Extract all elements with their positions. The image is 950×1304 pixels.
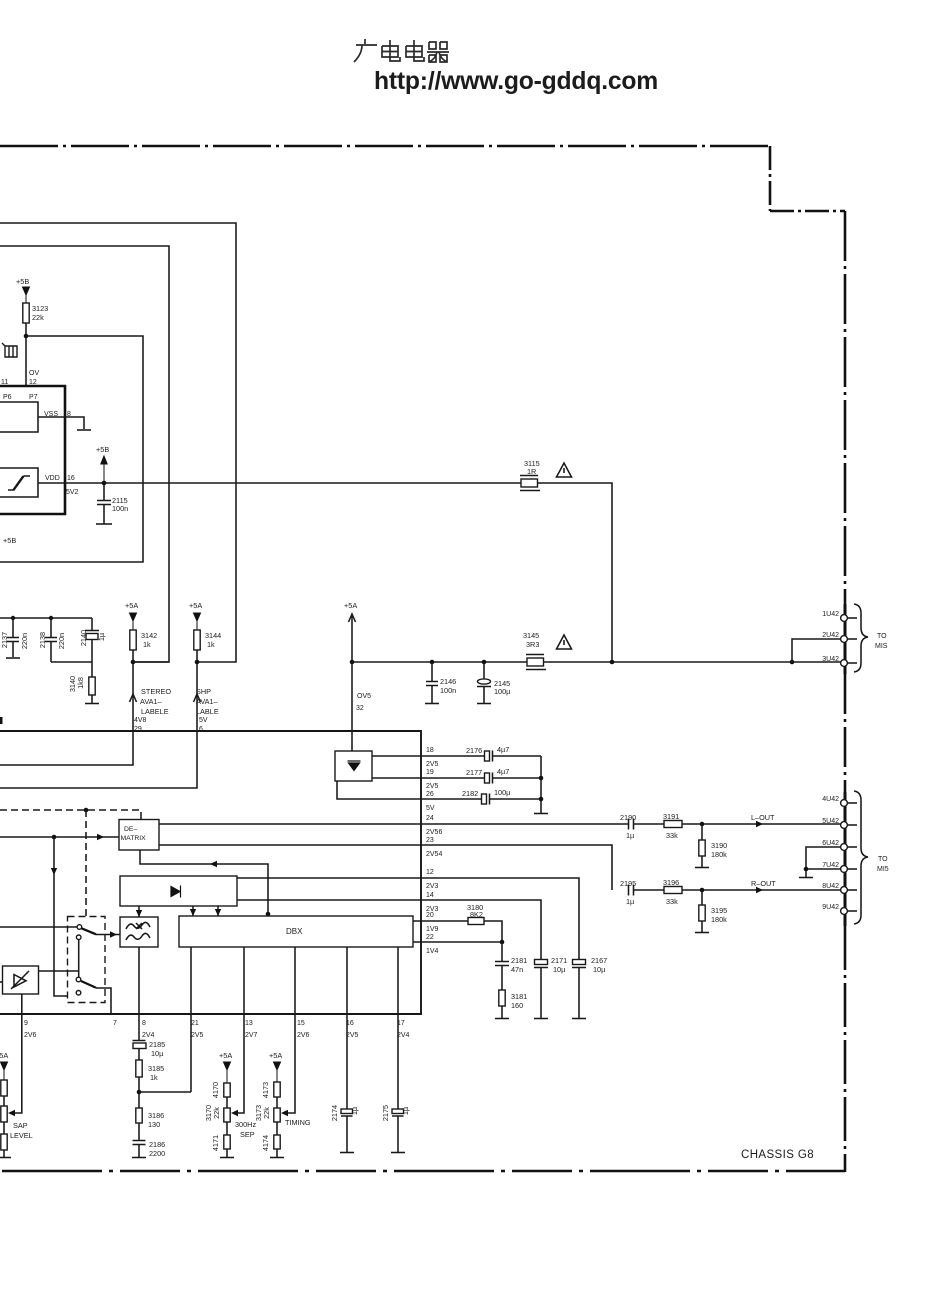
node junction dot on VDD rail [102, 481, 107, 486]
svg-text:1k: 1k [207, 640, 215, 649]
wire supply rail to 3145 [352, 661, 527, 663]
svg-text:9U42: 9U42 [822, 904, 839, 911]
svg-text:2V6: 2V6 [24, 1032, 37, 1039]
svg-text:1µ: 1µ [626, 831, 635, 840]
wire dbx to pin 21 [190, 947, 192, 1014]
node junction dot [430, 660, 435, 665]
svg-text:15: 15 [297, 1020, 305, 1027]
svg-text:22k: 22k [212, 1107, 221, 1119]
svg-text:14: 14 [426, 892, 434, 899]
resistor 4173 [274, 1082, 280, 1097]
svg-text:MI5: MI5 [877, 866, 889, 873]
svg-text:DE–: DE– [124, 826, 137, 833]
svg-text:LABELE: LABELE [141, 707, 169, 716]
supply +5B arrow [23, 287, 30, 303]
capacitor 2176 [485, 751, 490, 761]
wire pin 8 from wave block [138, 947, 140, 1014]
svg-text:2V4: 2V4 [397, 1032, 410, 1039]
svg-text:LEVEL: LEVEL [10, 1131, 33, 1140]
wire arrow into wave block [138, 906, 140, 917]
wire ground bus of caps [540, 756, 542, 813]
op-amp U1 microcomputer box [0, 386, 65, 514]
wire mute out [39, 970, 79, 972]
wire 3144 to pin 6 [196, 650, 198, 731]
svg-text:20: 20 [426, 912, 434, 919]
capacitor 2145 electrolytic [483, 662, 485, 679]
svg-text:TO: TO [878, 856, 888, 863]
svg-text:180k: 180k [711, 850, 727, 859]
brace to MI5 [854, 791, 868, 924]
capacitor 2181 [495, 942, 509, 990]
svg-text:4170: 4170 [211, 1082, 220, 1098]
wire VDD long rail to resistor 3115 [38, 482, 521, 484]
L-OUT arrow [756, 821, 763, 827]
svg-text:220n: 220n [20, 633, 29, 649]
svg-text:2167: 2167 [591, 956, 607, 965]
svg-text:26: 26 [426, 791, 434, 798]
svg-text:8U42: 8U42 [822, 883, 839, 890]
dbx block [179, 916, 413, 947]
svg-text:+5B: +5B [96, 445, 109, 454]
chain border top [0, 145, 770, 148]
svg-text:2177: 2177 [466, 768, 482, 777]
ground [477, 703, 491, 705]
chain border top-right step [770, 146, 845, 211]
svg-text:9: 9 [24, 1020, 28, 1027]
arrow up shp available [194, 694, 201, 702]
wire 6U42 7U42 tie to ground [806, 847, 841, 877]
svg-text:2V7: 2V7 [245, 1032, 258, 1039]
svg-text:2V54: 2V54 [426, 851, 442, 858]
svg-text:1V9: 1V9 [426, 926, 439, 933]
svg-text:100µ: 100µ [494, 788, 511, 797]
svg-text:+5B: +5B [16, 277, 29, 286]
svg-text:+5A: +5A [269, 1051, 282, 1060]
svg-text:8: 8 [142, 1020, 146, 1027]
switch dashed box [68, 917, 106, 1003]
wire de-matrix lower port from dbx [140, 850, 268, 916]
wire resistor 3123 to pin 12 [25, 323, 27, 386]
svg-text:8K2: 8K2 [470, 910, 483, 919]
pin 12 wire to 2167 [237, 878, 579, 959]
arrow up stereo available [130, 694, 137, 702]
node junction dot [137, 1090, 142, 1095]
brace to MIS [854, 604, 868, 672]
switch S1 [77, 925, 82, 930]
capacitor 2115 [97, 483, 111, 524]
schmitt trigger block [0, 468, 38, 497]
svg-text:4µ7: 4µ7 [497, 767, 509, 776]
svg-text:+5A: +5A [125, 601, 138, 610]
wire 3142 to pin 29 [132, 650, 134, 731]
svg-text:33k: 33k [666, 897, 678, 906]
svg-text:4174: 4174 [261, 1135, 270, 1151]
capacitor 2137 [7, 618, 19, 657]
svg-text:OV: OV [29, 370, 39, 377]
wire pin 6 internal [0, 731, 197, 788]
svg-text:4µ7: 4µ7 [497, 745, 509, 754]
svg-text:1k8: 1k8 [76, 677, 85, 689]
switch S2 [76, 977, 81, 982]
capacitor 2146 [426, 662, 438, 703]
pin 22 wire [413, 941, 502, 943]
arrow up supply [101, 456, 107, 483]
svg-text:33k: 33k [666, 831, 678, 840]
matrix diode block [120, 876, 237, 906]
capacitor 2177 [485, 773, 490, 783]
svg-text:STEREO: STEREO [141, 687, 171, 696]
node junction dot [131, 660, 136, 665]
svg-text:MATRIX: MATRIX [121, 835, 147, 842]
arrow up [349, 614, 356, 622]
svg-text:+5A: +5A [344, 601, 357, 610]
svg-text:3U42: 3U42 [822, 656, 839, 663]
svg-text:AVA1–: AVA1– [196, 697, 219, 706]
resistor 3145 fusible [527, 658, 544, 666]
svg-text:5V: 5V [426, 805, 435, 812]
wire pin 32 into reference block [351, 662, 353, 751]
wire dbx to pin 17 [397, 947, 399, 1014]
svg-text:1µ: 1µ [97, 632, 106, 641]
svg-text:2146: 2146 [440, 677, 456, 686]
svg-text:4171: 4171 [211, 1135, 220, 1151]
ground [534, 1018, 548, 1020]
svg-text:2190: 2190 [620, 813, 636, 822]
resistor 3140 [91, 662, 93, 677]
node junction dot [49, 616, 53, 620]
svg-text:100n: 100n [112, 504, 128, 513]
svg-text:3191: 3191 [663, 812, 679, 821]
svg-text:180k: 180k [711, 915, 727, 924]
capacitor 2195 [629, 885, 634, 896]
wire from node A to off-page left [0, 336, 143, 562]
wire pin 19 [372, 777, 484, 779]
ground [572, 1018, 586, 1020]
ground [0, 1157, 11, 1159]
svg-text:18: 18 [426, 747, 434, 754]
capacitor 2190 [629, 819, 634, 830]
wire pin 18 [372, 755, 484, 757]
svg-text:2V5: 2V5 [426, 783, 439, 790]
svg-text:P6: P6 [3, 394, 12, 401]
svg-text:13: 13 [245, 1020, 253, 1027]
reference diode block [335, 751, 372, 781]
ground [534, 813, 548, 815]
svg-text:5V2: 5V2 [66, 489, 79, 496]
svg-text:SAP: SAP [13, 1121, 28, 1130]
wire capacitor row feed [0, 617, 92, 619]
capacitor 2182 [482, 794, 487, 804]
wire dbx to pin 16 [346, 947, 348, 1014]
wire pin 9 [21, 994, 23, 1014]
capacitor 2138 [45, 618, 57, 662]
ground [6, 657, 20, 659]
svg-text:3R3: 3R3 [526, 640, 539, 649]
svg-text:7U42: 7U42 [822, 862, 839, 869]
svg-text:6U42: 6U42 [822, 840, 839, 847]
svg-text:3196: 3196 [663, 878, 679, 887]
potentiometer 3173 [274, 1108, 280, 1122]
wire pin 13 to 300Hz pot [233, 1014, 244, 1113]
svg-text:2137: 2137 [0, 632, 9, 648]
dashed wire to switch [85, 810, 87, 957]
svg-text:19: 19 [426, 769, 434, 776]
resistor 4174 [274, 1135, 280, 1149]
svg-text:2171: 2171 [551, 956, 567, 965]
wire node to inner L-path [133, 661, 169, 663]
svg-text:100µ: 100µ [494, 687, 511, 696]
wire pin 26 from block bottom [337, 781, 481, 799]
svg-text:http://www.go-gddq.com: http://www.go-gddq.com [374, 68, 658, 95]
resistor 3191 [664, 821, 682, 828]
svg-text:2175: 2175 [381, 1105, 390, 1121]
svg-text:SHP: SHP [196, 687, 211, 696]
audio mute block [3, 966, 39, 994]
svg-text:2V5: 2V5 [191, 1032, 204, 1039]
capacitor 2167 polarized [573, 960, 586, 965]
svg-text:2V3: 2V3 [426, 883, 439, 890]
node junction dot [195, 660, 200, 665]
connector book icon [2, 343, 17, 357]
wire pin 29 internal [0, 731, 133, 765]
ground [425, 703, 439, 705]
svg-text:100n: 100n [440, 686, 456, 695]
ground [391, 1152, 405, 1154]
svg-text:3190: 3190 [711, 841, 727, 850]
chain border right [844, 211, 847, 604]
svg-text:2V56: 2V56 [426, 829, 442, 836]
wire de-matrix input [0, 836, 119, 838]
ground [695, 932, 709, 934]
wire down-mix control [54, 837, 76, 996]
wire 3115 to corner down [538, 483, 613, 662]
de-matrix block [119, 820, 159, 851]
ground [695, 867, 709, 869]
svg-text:L–OUT: L–OUT [751, 813, 775, 822]
svg-text:2186: 2186 [149, 1140, 165, 1149]
svg-text:32: 32 [356, 705, 364, 712]
chain border bottom [2, 1170, 845, 1173]
svg-text:10µ: 10µ [593, 965, 606, 974]
svg-text:SEP: SEP [240, 1130, 255, 1139]
wire pin 15 to timing pot [283, 1014, 295, 1113]
node junction dot [610, 660, 615, 665]
left margin cut label mark [0, 717, 3, 724]
svg-text:LABLE: LABLE [196, 707, 219, 716]
svg-text:+5B: +5B [3, 536, 16, 545]
resistor 3185 [136, 1060, 142, 1077]
svg-text:160: 160 [511, 1001, 523, 1010]
svg-text:1µ: 1µ [401, 1106, 410, 1115]
ground [270, 1157, 284, 1159]
ground [96, 523, 112, 525]
potentiometer 3170 [224, 1108, 230, 1122]
pin 20 wire with resistor 3180 [413, 920, 468, 922]
warning triangle [557, 635, 572, 649]
resistor 3142 [130, 630, 136, 650]
wire switch input [0, 926, 77, 928]
capacitor 2175 polarized [397, 1014, 399, 1109]
resistor 3115 fusible [521, 479, 538, 487]
svg-text:12: 12 [426, 869, 434, 876]
wire node to pin 21 [139, 1014, 191, 1092]
dashed control bus [0, 810, 141, 819]
svg-text:3185: 3185 [148, 1064, 164, 1073]
capacitor 2174 polarized [346, 1014, 348, 1109]
svg-text:1R: 1R [527, 467, 536, 476]
R-OUT arrow [756, 887, 763, 893]
svg-text:TIMING: TIMING [285, 1118, 311, 1127]
svg-text:2V5: 2V5 [426, 761, 439, 768]
capacitor 2140 polarized [85, 618, 99, 631]
svg-text:AVA1–: AVA1– [140, 697, 163, 706]
svg-text:22k: 22k [32, 313, 44, 322]
resistor 3123 [23, 303, 29, 323]
svg-text:2140: 2140 [79, 630, 88, 646]
potentiometer sap level [1, 1106, 7, 1122]
svg-text:3195: 3195 [711, 906, 727, 915]
svg-text:4U42: 4U42 [822, 796, 839, 803]
IC U42 main box [0, 731, 421, 1014]
wire pin 9 to pot [10, 1014, 22, 1113]
sub-block box port P6 [0, 402, 38, 432]
node junction dot [11, 616, 15, 620]
svg-text:1k: 1k [150, 1073, 158, 1082]
ground [495, 1018, 509, 1020]
svg-text:2V6: 2V6 [297, 1032, 310, 1039]
svg-text:MIS: MIS [875, 643, 888, 650]
pin 14 wire to 2171 [237, 900, 541, 959]
svg-text:1µ: 1µ [626, 897, 635, 906]
svg-text:3181: 3181 [511, 992, 527, 1001]
resistor 3190 [701, 824, 703, 840]
svg-text:2V4: 2V4 [142, 1032, 155, 1039]
resistor 3196 [664, 887, 682, 894]
svg-text:1V4: 1V4 [426, 948, 439, 955]
resistor sap top [1, 1080, 7, 1096]
svg-text:2195: 2195 [620, 879, 636, 888]
ground [132, 1157, 146, 1159]
ground [85, 703, 99, 705]
wire dbx to pin 13 [243, 947, 245, 1014]
svg-text:5V: 5V [199, 717, 208, 724]
warning triangle [557, 463, 572, 477]
wire branch to 2U42 [792, 639, 841, 662]
svg-text:16: 16 [67, 475, 75, 482]
svg-text:2185: 2185 [149, 1040, 165, 1049]
wire pin 8 to ground [38, 417, 84, 429]
svg-text:10µ: 10µ [151, 1049, 164, 1058]
node junction dot [790, 660, 795, 665]
ground [799, 877, 813, 879]
svg-text:VDD: VDD [45, 475, 60, 482]
node junction dot [700, 888, 705, 893]
svg-text:4173: 4173 [261, 1082, 270, 1098]
node junction dot [700, 822, 705, 827]
resistor sap bottom [1, 1134, 7, 1150]
svg-text:1k: 1k [143, 640, 151, 649]
resistor 4170 [224, 1083, 230, 1097]
svg-text:1µ: 1µ [350, 1106, 359, 1115]
svg-text:2176: 2176 [466, 746, 482, 755]
resistor 3195 [701, 890, 703, 905]
wire outer L-path from off-page to node under 3144 [0, 223, 236, 662]
svg-text:10µ: 10µ [553, 965, 566, 974]
wire 3145 to terminal 3U42 [544, 661, 842, 663]
resistor 3181 [499, 990, 505, 1006]
svg-text:22: 22 [426, 934, 434, 941]
wire dbx to pin 15 [294, 947, 296, 1014]
svg-text:2U42: 2U42 [822, 632, 839, 639]
svg-text:TO: TO [877, 633, 887, 640]
node junction dot [482, 660, 487, 665]
svg-text:DBX: DBX [286, 927, 303, 936]
svg-text:2181: 2181 [511, 956, 527, 965]
svg-text:+5A: +5A [189, 601, 202, 610]
ground [77, 429, 91, 431]
svg-text:R–OUT: R–OUT [751, 879, 776, 888]
svg-text:2182: 2182 [462, 789, 478, 798]
svg-text:3142: 3142 [141, 631, 157, 640]
svg-text:2200: 2200 [149, 1149, 165, 1158]
svg-text:CHASSIS G8: CHASSIS G8 [741, 1149, 814, 1161]
capacitor 2171 polarized [535, 960, 548, 965]
pin 23 line R-channel from de-matrix [159, 845, 612, 890]
node A junction dot [24, 334, 29, 339]
ground [340, 1152, 354, 1154]
svg-text:24: 24 [426, 815, 434, 822]
wave filter block [120, 917, 158, 947]
svg-text:2V5: 2V5 [346, 1032, 359, 1039]
svg-text:47n: 47n [511, 965, 523, 974]
ground [220, 1157, 234, 1159]
svg-text:3123: 3123 [32, 304, 48, 313]
svg-text:OV5: OV5 [357, 693, 371, 700]
svg-text:22k: 22k [262, 1107, 271, 1119]
svg-text:2138: 2138 [38, 632, 47, 648]
header logo text 广电电器 [354, 39, 449, 62]
svg-text:2174: 2174 [330, 1105, 339, 1121]
svg-text:3145: 3145 [523, 631, 539, 640]
pin 24 line L-channel from de-matrix [159, 823, 628, 825]
svg-text:7: 7 [113, 1020, 117, 1027]
svg-text:5U42: 5U42 [822, 818, 839, 825]
resistor 4171 [224, 1135, 230, 1149]
svg-text:3186: 3186 [148, 1111, 164, 1120]
resistor 3186 [136, 1108, 142, 1123]
svg-text:+5A: +5A [0, 1051, 8, 1060]
svg-text:1U42: 1U42 [822, 611, 839, 618]
wire under 2138 2140 [51, 661, 92, 663]
svg-text:130: 130 [148, 1120, 160, 1129]
capacitor 2186 [133, 1141, 146, 1158]
svg-text:220n: 220n [57, 633, 66, 649]
capacitor 2185 polarized [133, 1014, 146, 1041]
wire arrows into dbx [192, 906, 194, 916]
svg-text:23: 23 [426, 837, 434, 844]
svg-text:P7: P7 [29, 394, 38, 401]
wire S1 lower contact down [78, 940, 80, 978]
resistor 3144 [194, 630, 200, 650]
wire inner L-path from off-page to node under 3142 [0, 246, 169, 662]
svg-text:21: 21 [191, 1020, 199, 1027]
svg-text:4V8: 4V8 [134, 717, 147, 724]
svg-text:+5A: +5A [219, 1051, 232, 1060]
svg-text:3144: 3144 [205, 631, 221, 640]
